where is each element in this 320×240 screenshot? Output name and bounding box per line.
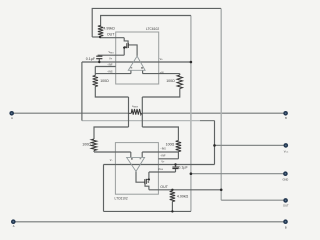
svg-text:100Ω: 100Ω [82,143,91,147]
svg-text:B: B [285,226,287,230]
svg-text:−INF: −INF [160,155,166,158]
svg-text:4.99kΩ: 4.99kΩ [103,27,115,31]
svg-text:LTC6102: LTC6102 [115,196,128,200]
svg-text:−INS: −INS [160,148,166,151]
svg-text:LTC6102: LTC6102 [146,27,159,31]
svg-text:B: B [285,116,287,120]
svg-text:−INF: −INF [107,64,113,67]
svg-text:+IN: +IN [160,71,164,74]
svg-text:OUT: OUT [107,32,115,36]
svg-text:100Ω: 100Ω [166,79,175,83]
svg-text:GND: GND [283,178,289,182]
svg-text:OUT: OUT [160,185,168,189]
svg-text:4.99kΩ: 4.99kΩ [177,194,189,198]
svg-text:100Ω: 100Ω [166,143,175,147]
svg-text:A: A [13,224,15,228]
svg-text:0.1µF: 0.1µF [178,166,188,170]
svg-text:100Ω: 100Ω [100,79,109,83]
svg-text:0.1µF: 0.1µF [86,57,96,61]
svg-text:A: A [11,116,13,120]
svg-text:−INS: −INS [107,71,113,74]
svg-text:OUT: OUT [283,203,289,207]
